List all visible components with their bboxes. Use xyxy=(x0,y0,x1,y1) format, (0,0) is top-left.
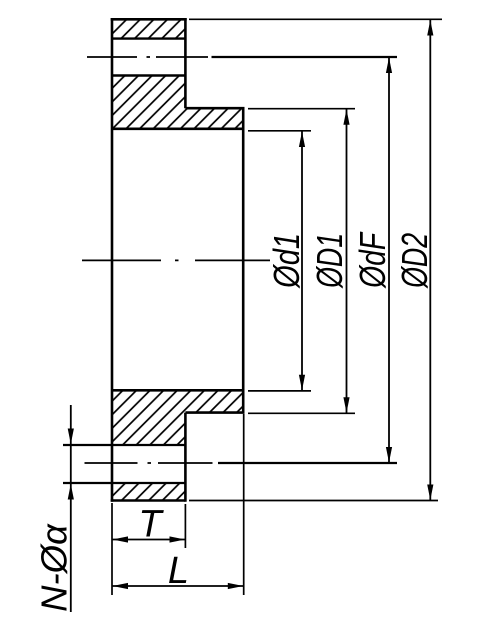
svg-text:Ød1: Ød1 xyxy=(266,233,307,289)
hatch upper rim band xyxy=(112,19,185,38)
extension line right for L xyxy=(243,414,245,595)
svg-text:T: T xyxy=(138,504,164,546)
centerline lower bolt hole xyxy=(85,462,213,464)
flange outline right edge upper xyxy=(184,18,187,108)
raised face edge xyxy=(242,108,245,412)
extension line top for D2 xyxy=(189,18,442,20)
extension line right for T xyxy=(184,504,186,548)
hatch lower rim band xyxy=(112,483,185,501)
flange outline right edge lower xyxy=(184,413,187,502)
hatch upper body region xyxy=(112,76,243,129)
centerline upper bolt hole xyxy=(87,56,208,58)
extension line bottom for D1 xyxy=(248,412,355,414)
extension line top for d1 xyxy=(248,130,311,132)
flange outline bottom edge xyxy=(111,499,186,502)
centerline main axis xyxy=(82,259,270,261)
svg-text:ØdF: ØdF xyxy=(352,231,393,288)
svg-text:N-Øα: N-Øα xyxy=(34,523,75,612)
extension line bottom for d1 xyxy=(248,390,311,392)
svg-text:L: L xyxy=(168,550,189,592)
hatch lower body region xyxy=(112,390,243,445)
bolt hole lower bottom edge with extension xyxy=(63,482,185,484)
extension line top for D1 xyxy=(248,108,355,110)
dimension line D2 xyxy=(429,20,431,500)
dimension line d1 xyxy=(301,132,303,391)
flange outline left edge xyxy=(111,18,114,502)
svg-text:ØD1: ØD1 xyxy=(309,233,350,289)
dimension line D1 xyxy=(346,109,348,413)
bolt hole upper top edge xyxy=(112,37,185,39)
step edge lower xyxy=(185,411,244,414)
bolt hole lower top edge with extension xyxy=(63,444,185,446)
svg-text:ØD2: ØD2 xyxy=(394,233,435,289)
dimension line N-alpha middle segment xyxy=(70,445,72,483)
bolt hole upper bottom edge xyxy=(112,74,185,76)
dimension line N-alpha lower arrow xyxy=(70,484,72,612)
dimension line L xyxy=(113,585,244,587)
dimension line N-alpha upper arrow xyxy=(70,405,72,444)
bore top edge xyxy=(112,128,243,131)
extension line left for T and L xyxy=(111,503,113,595)
step edge upper xyxy=(185,107,244,110)
bore bottom edge xyxy=(112,389,243,392)
dimension line dF xyxy=(388,58,390,463)
extension line bottom for D2 xyxy=(189,500,438,502)
flange outline top edge xyxy=(111,18,187,21)
dimension line T xyxy=(113,539,186,541)
